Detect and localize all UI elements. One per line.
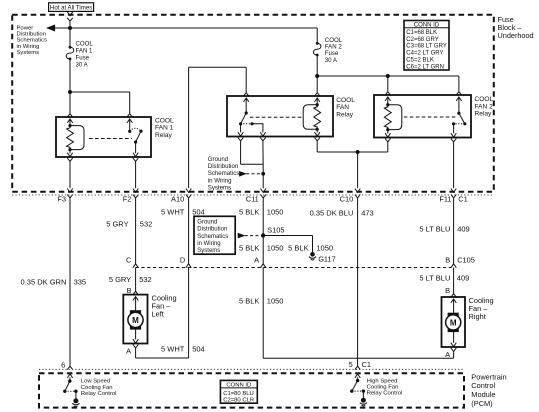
motor M2 box: Cooling Fan Right — [442, 297, 466, 347]
wire: right fan A stub — [453, 351, 455, 358]
svg-text:5 LT BLU: 5 LT BLU — [419, 274, 450, 283]
pin: right fan B — [451, 294, 456, 297]
svg-text:335: 335 — [74, 277, 87, 286]
svg-text:504: 504 — [192, 344, 205, 353]
fuse F1: COOL FAN 1 30A — [66, 47, 74, 59]
wire: relay3 coil lead — [387, 97, 389, 105]
coil: relay1 winding — [68, 124, 71, 127]
wire: relay2 switch common lead — [245, 98, 247, 112]
coil: relay3 winding — [386, 103, 389, 106]
wire: A10 below border — [188, 198, 190, 263]
svg-text:5 WHT: 5 WHT — [161, 344, 185, 353]
svg-text:B: B — [445, 255, 450, 264]
connector C105 inline dashed line — [136, 267, 451, 269]
wire: 5 GRY down to C105 — [135, 198, 137, 263]
svg-text:C1=68 BLK: C1=68 BLK — [406, 30, 437, 36]
svg-text:409: 409 — [457, 224, 470, 233]
svg-text:C5=2 BLK: C5=2 BLK — [406, 58, 434, 64]
arrow to power distribution (points left) — [47, 25, 54, 31]
motor M1 symbol — [130, 310, 141, 329]
svg-text:0.35 DK BLU: 0.35 DK BLU — [310, 208, 354, 217]
pin: relay1 coil top (86) — [67, 114, 72, 117]
wire: 5 BLK to S105 — [262, 198, 264, 235]
svg-text:5 GRY: 5 GRY — [109, 275, 131, 284]
wire: 5 GRY to left fan — [135, 268, 137, 292]
svg-text:Ground: Ground — [208, 156, 228, 163]
wire: relay2 coil lead — [316, 98, 318, 105]
svg-text:Low Speed: Low Speed — [81, 379, 110, 385]
connector PCM pin 6 crossing — [67, 366, 72, 369]
svg-text:CONN ID: CONN ID — [226, 382, 251, 388]
connector PCM pin 5 crossing — [355, 366, 360, 369]
svg-text:6: 6 — [61, 360, 65, 369]
svg-text:C1: C1 — [362, 360, 371, 369]
svg-text:F11: F11 — [439, 195, 451, 204]
pin: left fan A — [133, 339, 138, 343]
svg-text:C: C — [126, 256, 132, 265]
svg-text:Right: Right — [469, 312, 486, 321]
pin: right fan A — [451, 343, 456, 347]
wire: branch to relay1 switch — [70, 91, 130, 93]
wire: 0.35 DK GRN to PCM pin 6 — [69, 198, 71, 366]
wire: 5 BLK to bottom jumper — [262, 268, 264, 359]
motor M2 symbol — [448, 313, 459, 332]
connector F11/C1 crossing — [451, 189, 456, 193]
svg-text:FAN 1: FAN 1 — [155, 125, 174, 132]
svg-text:F2: F2 — [123, 195, 132, 204]
connector C105 pin C — [133, 264, 138, 268]
svg-text:5 BLK: 5 BLK — [288, 244, 308, 253]
svg-text:30 A: 30 A — [76, 62, 89, 69]
wire: fuse2 bus to relay3 switch — [317, 75, 459, 77]
svg-text:5: 5 — [349, 360, 353, 369]
svg-text:1050: 1050 — [267, 208, 284, 217]
wire: relay2 NO pin down (C11) — [262, 141, 264, 170]
svg-text:5 BLK: 5 BLK — [239, 296, 259, 305]
reference arrow to ground splice node — [240, 172, 246, 176]
pin: relay2 coil bottom (85) — [315, 132, 320, 136]
svg-text:0.35 DK GRN: 0.35 DK GRN — [21, 277, 67, 286]
svg-text:C1: C1 — [458, 195, 467, 204]
svg-text:Cooling Fan: Cooling Fan — [81, 385, 113, 391]
svg-text:Systems: Systems — [17, 50, 40, 56]
svg-text:S105: S105 — [267, 225, 284, 234]
wire: left fan internal — [135, 297, 137, 311]
svg-text:in Wiring: in Wiring — [208, 177, 232, 184]
svg-text:473: 473 — [361, 208, 374, 217]
svg-text:COOL: COOL — [155, 117, 174, 124]
svg-text:(PCM): (PCM) — [471, 399, 492, 408]
pin: relay1 switch bottom (87) — [133, 153, 138, 157]
ground G117 — [310, 252, 315, 257]
svg-text:1050: 1050 — [267, 244, 284, 253]
wire: bottom jumper to right fan A — [263, 357, 453, 359]
svg-text:Hot at All Times: Hot at All Times — [50, 5, 92, 12]
relay K3 box: COOL FAN 2 Relay — [374, 95, 471, 138]
svg-text:Underhood: Underhood — [498, 31, 534, 40]
svg-text:Control: Control — [471, 381, 495, 390]
node: hot bus split — [68, 26, 72, 30]
switch: relay2 contacts — [245, 111, 248, 114]
svg-text:in Wiring: in Wiring — [197, 241, 220, 247]
wire: S105 branch to G117 — [263, 235, 312, 237]
svg-text:532: 532 — [139, 275, 152, 284]
svg-text:A10: A10 — [171, 195, 184, 204]
wire: relay1 output to F2 — [135, 162, 137, 188]
svg-text:Distribution: Distribution — [208, 163, 238, 170]
fuse F2: COOL FAN 2 30A — [313, 43, 321, 55]
svg-text:COOL: COOL — [475, 96, 494, 103]
wire: relay3 switch common lead — [458, 97, 460, 112]
svg-text:Systems: Systems — [197, 248, 220, 254]
linkage: relay3 coil to switch — [404, 116, 457, 118]
svg-text:M: M — [132, 316, 139, 325]
connector C11 crossing — [261, 189, 266, 193]
svg-text:Power: Power — [17, 25, 34, 31]
connector C10 crossing — [355, 189, 360, 193]
wire: 0.35 DK BLU to PCM pin 5 — [357, 198, 359, 366]
wire: right fan internal — [453, 299, 455, 313]
svg-text:5 BLK: 5 BLK — [239, 208, 259, 217]
svg-text:A: A — [445, 350, 450, 359]
wire: tee down to C10 — [357, 152, 359, 188]
wire: 5 BLK below S105 — [262, 236, 264, 264]
wire: branch to relay1 coil — [69, 92, 71, 114]
svg-text:Relay: Relay — [475, 111, 493, 118]
svg-text:B: B — [127, 286, 132, 295]
motor M1 box: Cooling Fan Left — [123, 295, 147, 344]
svg-text:5 BLK: 5 BLK — [239, 244, 259, 253]
svg-text:Relay Control: Relay Control — [81, 391, 117, 397]
wire: drop to relay2 coil — [316, 76, 318, 92]
reference arrow to S105 — [238, 234, 244, 238]
svg-text:C1=80 BLU: C1=80 BLU — [223, 391, 254, 397]
svg-text:Relay: Relay — [155, 132, 173, 139]
ground: low speed driver — [73, 398, 78, 403]
svg-text:Distribution: Distribution — [197, 227, 227, 233]
node: fuse1 output split — [68, 90, 72, 94]
wire: A10 riser to relay2 switch — [189, 66, 247, 68]
linkage: relay1 coil to switch — [89, 138, 132, 140]
svg-text:30 A: 30 A — [325, 57, 338, 64]
svg-text:in Wiring: in Wiring — [17, 44, 40, 50]
svg-text:M: M — [450, 318, 457, 327]
svg-text:F3: F3 — [57, 195, 66, 204]
connector: hot feed through block border — [67, 12, 72, 16]
svg-text:1050: 1050 — [316, 244, 333, 253]
svg-text:D: D — [180, 256, 185, 265]
svg-text:Systems: Systems — [208, 185, 231, 192]
svg-text:C6=2 LT GRN: C6=2 LT GRN — [406, 64, 444, 70]
wire: relay2 NC pin down and merge — [240, 141, 242, 164]
svg-text:1050: 1050 — [267, 296, 284, 305]
switch: relay1 contacts — [128, 130, 131, 133]
svg-text:504: 504 — [192, 208, 205, 217]
pin: relay3 switch bottom (87) — [451, 133, 456, 137]
svg-text:Ground: Ground — [197, 219, 217, 225]
svg-text:Distribution: Distribution — [17, 31, 46, 37]
connector A10 crossing — [186, 189, 191, 193]
relay K1 box: COOL FAN 1 Relay — [56, 117, 151, 157]
pin: relay2 switch top (30) — [244, 93, 249, 96]
svg-text:CONN ID: CONN ID — [414, 22, 440, 28]
driver: high speed cooling fan relay control switch — [356, 379, 359, 382]
wire: 5 LT BLU to C105 pin B — [453, 198, 455, 263]
wire: relay1 switch output lead — [135, 142, 137, 153]
hot at all times box — [49, 3, 94, 12]
wire: hot bus horizontal to fuse 2 — [70, 27, 317, 29]
svg-text:5 WHT: 5 WHT — [161, 208, 185, 217]
pin: relay2 NO bottom — [260, 132, 265, 136]
wire: 5 LT BLU to right fan — [453, 268, 455, 294]
svg-text:C10: C10 — [340, 195, 354, 204]
pin: relay3 coil top (86) — [385, 92, 390, 95]
driver: low speed cooling fan relay control switch — [68, 379, 71, 382]
svg-text:C2=80 CLR: C2=80 CLR — [223, 398, 254, 404]
pin: relay2 NC bottom — [238, 132, 243, 136]
wire: relay1 coil lead bottom — [69, 150, 71, 154]
pin: left fan B — [133, 291, 138, 294]
svg-text:Schematics: Schematics — [17, 38, 48, 44]
svg-text:A: A — [126, 346, 131, 355]
PCM dashed border — [39, 373, 464, 407]
svg-text:G117: G117 — [318, 254, 336, 263]
wire: hot bus vertical to fuse 1 — [69, 22, 71, 48]
node: fuse2 bus split — [315, 74, 319, 78]
wire: fuse1 output down to node — [69, 59, 71, 92]
svg-text:Schematics: Schematics — [208, 170, 240, 177]
conn id table (PCM) — [220, 380, 257, 403]
wire: relay2 coil lead bottom — [316, 129, 318, 132]
pin: relay3 coil bottom (85) — [385, 133, 390, 137]
ground distribution reference (boxed) — [194, 216, 235, 254]
node: ground tie in fuse block — [261, 172, 265, 176]
svg-text:Module: Module — [471, 390, 495, 399]
wire: 5 WHT to fan jumper — [188, 268, 190, 359]
wire: relay3 coil bottom to bus — [387, 142, 389, 152]
pin: relay1 switch top (30) — [127, 114, 132, 117]
wire: relay1 coil to F3 — [69, 162, 71, 188]
ground: high speed driver — [361, 398, 366, 403]
linkage: relay2 coil to switch — [250, 116, 302, 118]
relay K2 box: COOL FAN Relay (series/parallel) — [227, 96, 333, 137]
fuse block - underhood dashed border — [12, 15, 494, 192]
wire: relay1 switch common lead — [129, 119, 131, 130]
svg-text:Left: Left — [152, 309, 164, 318]
pin: relay1 coil bottom (85) — [67, 153, 72, 157]
svg-text:409: 409 — [457, 274, 470, 283]
conn id table (fuse block) — [404, 21, 449, 71]
svg-text:Relay: Relay — [336, 111, 354, 118]
connector C105 pin D — [186, 264, 191, 268]
svg-text:COOL: COOL — [76, 40, 94, 47]
wire: relay3 output to F11 — [453, 142, 455, 188]
coil: relay2 winding — [316, 103, 319, 106]
wire: hot feed from Hot-at-All-Times into fuse block — [69, 10, 71, 13]
svg-text:5 GRY: 5 GRY — [106, 220, 128, 229]
svg-text:High Speed: High Speed — [367, 378, 398, 384]
svg-text:FAN 2: FAN 2 — [475, 103, 494, 110]
svg-text:A: A — [254, 256, 259, 265]
connector C105 pin A — [261, 264, 266, 268]
svg-text:COOL: COOL — [336, 97, 355, 104]
svg-text:Cooling Fan: Cooling Fan — [367, 385, 399, 391]
wire: coil ground bus — [317, 151, 388, 153]
connector F3 crossing — [67, 189, 72, 193]
wire: drop to relay3 coil — [387, 76, 389, 91]
splice node S105 — [261, 233, 265, 237]
connector C105 pin B — [451, 264, 456, 268]
svg-text:C2=68 GRY: C2=68 GRY — [406, 37, 438, 43]
wire: A10 main (5 WHT 504) — [188, 67, 190, 188]
svg-text:Relay Control: Relay Control — [367, 391, 403, 397]
fuse block connector face dotted line — [12, 194, 494, 196]
svg-text:5 LT BLU: 5 LT BLU — [419, 224, 450, 233]
svg-text:B: B — [445, 286, 450, 295]
wire: pin5 to driver — [357, 377, 359, 380]
switch: relay3 contacts — [457, 112, 460, 115]
wire: relay3 coil lead bottom — [387, 130, 389, 134]
svg-text:532: 532 — [140, 220, 153, 229]
svg-text:Schematics: Schematics — [197, 234, 228, 240]
pin: relay2 coil top (86) — [315, 93, 320, 96]
PCM connector face dotted line — [39, 368, 464, 370]
svg-text:C3=68 LT GRY: C3=68 LT GRY — [406, 44, 447, 50]
node: branch to relay3 coil — [386, 74, 390, 78]
svg-text:FAN 1: FAN 1 — [76, 48, 94, 55]
wire: pin6 to driver — [69, 377, 71, 380]
svg-text:Powertrain: Powertrain — [471, 372, 506, 381]
node: bus tee to C10 — [356, 150, 360, 154]
wire: fuse2 output down — [316, 55, 318, 76]
pin: relay3 switch top (30) — [456, 92, 461, 95]
wire: relay1 coil lead — [69, 119, 71, 125]
svg-text:FAN: FAN — [336, 104, 349, 111]
svg-text:Fuse: Fuse — [76, 55, 90, 62]
wire: relay2 coil bottom to bus — [316, 141, 318, 152]
svg-text:C105: C105 — [457, 255, 475, 264]
svg-text:C4=2 LT GRY: C4=2 LT GRY — [406, 51, 443, 57]
wire: left fan A to 5 WHT jumper — [135, 348, 137, 358]
svg-text:C11: C11 — [246, 195, 259, 204]
connector F2 crossing — [133, 189, 138, 193]
